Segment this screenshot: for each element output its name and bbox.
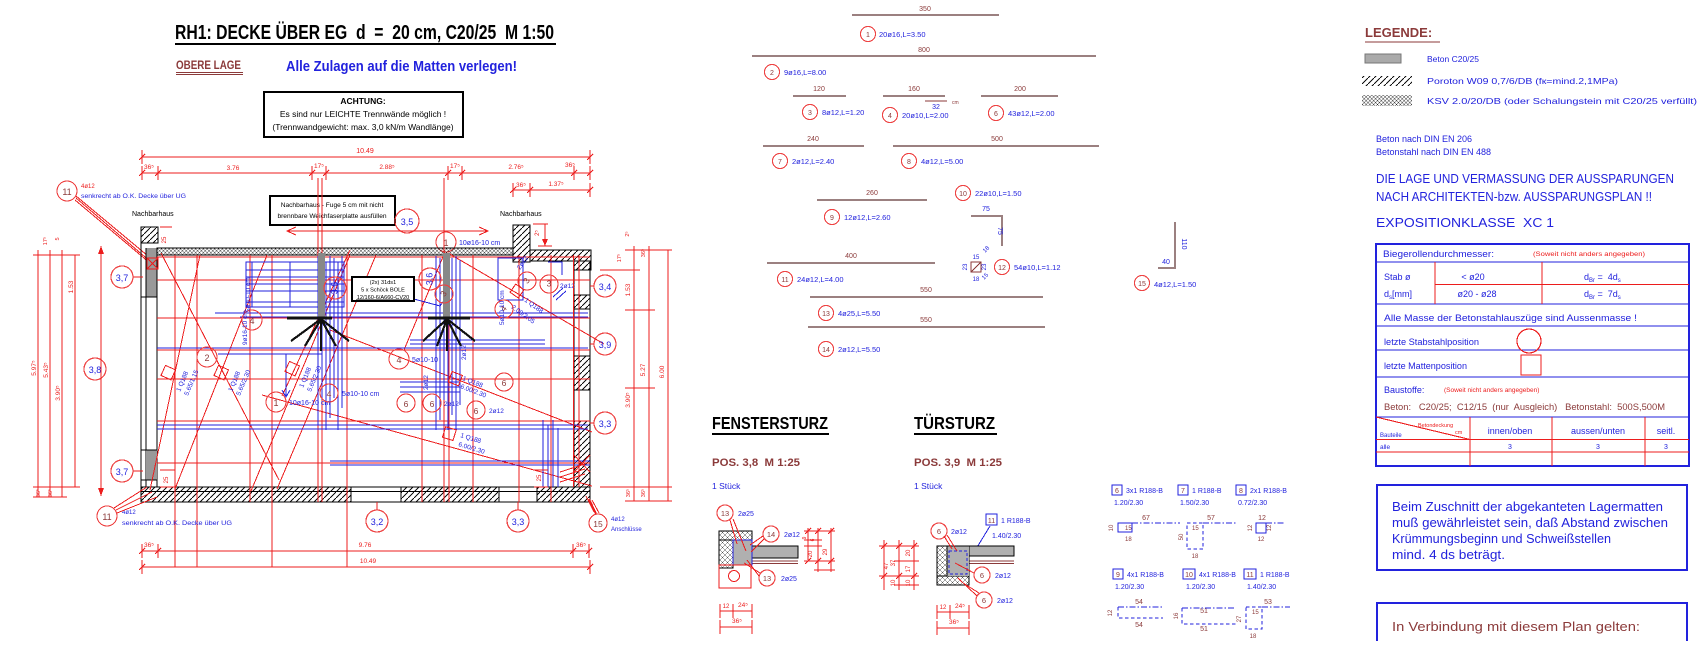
svg-text:mind. 4 ds beträgt.: mind. 4 ds beträgt.	[1392, 548, 1505, 562]
svg-text:Beton nach DIN EN 206: Beton nach DIN EN 206	[1376, 134, 1472, 144]
svg-text:2⁵: 2⁵	[624, 231, 631, 236]
svg-text:2: 2	[770, 70, 774, 77]
slab	[752, 546, 798, 558]
F2 mat label	[442, 427, 456, 441]
svg-text:1.37⁵: 1.37⁵	[548, 181, 564, 188]
svg-text:36⁵: 36⁵	[640, 249, 647, 257]
svg-text:9.76: 9.76	[359, 542, 372, 549]
svg-text:18: 18	[1250, 634, 1257, 640]
svg-text:Poroton W09 0,7/6/DB (fк=mind.: Poroton W09 0,7/6/DB (fк=mind.2,1MPa)	[1427, 76, 1618, 86]
svg-text:(2x) 31ds1: (2x) 31ds1	[370, 280, 396, 286]
svg-text:3.90⁵: 3.90⁵	[625, 392, 632, 408]
svg-text:3,6: 3,6	[424, 273, 434, 286]
svg-text:1.53: 1.53	[625, 283, 632, 296]
svg-text:2: 2	[204, 353, 209, 363]
svg-text:3,6: 3,6	[329, 282, 339, 295]
svg-text:54: 54	[1135, 599, 1143, 606]
svg-text:5 x Schöck BOLE: 5 x Schöck BOLE	[361, 288, 405, 294]
tuersturz sketch	[986, 514, 997, 525]
svg-text:2ø25: 2ø25	[781, 576, 797, 583]
item 2	[752, 55, 1096, 57]
left dims	[879, 540, 919, 590]
circle 2	[197, 347, 217, 367]
svg-text:1.40/2.30: 1.40/2.30	[1247, 584, 1276, 591]
svg-text:6: 6	[404, 399, 409, 409]
svg-text:51: 51	[1200, 626, 1208, 633]
svg-text:5.27: 5.27	[640, 363, 647, 376]
svg-text:(Soweit nicht anders angegeben: (Soweit nicht anders angegeben)	[1444, 387, 1539, 394]
svg-text:(Trennwandgewicht: max. 3,0 kN: (Trennwandgewicht: max. 3,0 kN/m Wandlän…	[272, 122, 453, 132]
svg-text:37: 37	[891, 559, 897, 566]
svg-text:3,3: 3,3	[599, 419, 612, 429]
svg-text:1 Stück: 1 Stück	[914, 481, 943, 491]
blue mat corner near circle 1	[218, 353, 322, 355]
blue cluster lower middle	[400, 340, 558, 487]
svg-text:RH1: DECKE ÜBER EG d = 20 c: RH1: DECKE ÜBER EG d = 20 cm, C20/25 M 1…	[175, 21, 554, 44]
svg-text:4ø12: 4ø12	[611, 517, 625, 523]
sub table	[1376, 417, 1689, 466]
svg-text:senkrecht ab O.K. Decke über U: senkrecht ab O.K. Decke über UG	[81, 193, 186, 200]
svg-text:2ø12,L=5.50: 2ø12,L=5.50	[838, 345, 880, 354]
item 4	[883, 95, 945, 97]
red X box at left wall top	[147, 258, 158, 269]
svg-text:1.20/2.30: 1.20/2.30	[1114, 500, 1143, 507]
red diagonals flat	[262, 250, 604, 486]
Schoeck box	[352, 277, 414, 301]
lintel	[733, 540, 752, 565]
svg-text:10: 10	[959, 191, 967, 198]
blue note box 2	[1377, 603, 1687, 646]
svg-text:4x1 R188-B: 4x1 R188-B	[1199, 572, 1236, 579]
circle 11 bottom	[97, 506, 117, 526]
Fuge box	[270, 196, 395, 225]
svg-text:36⁵: 36⁵	[144, 164, 154, 171]
svg-text:3x1 R188-B: 3x1 R188-B	[1126, 488, 1163, 495]
nachbar wall block top-right	[513, 225, 530, 262]
svg-text:4ø12: 4ø12	[122, 510, 136, 516]
svg-text:8ø12,L=1.20: 8ø12,L=1.20	[822, 108, 864, 117]
svg-text:6: 6	[994, 111, 998, 118]
svg-text:Baustoffe:: Baustoffe:	[1384, 385, 1424, 395]
svg-text:550: 550	[920, 317, 932, 324]
item 14	[808, 326, 1045, 328]
svg-text:10: 10	[906, 579, 912, 586]
svg-text:24⁵: 24⁵	[955, 603, 965, 610]
svg-text:11: 11	[102, 512, 111, 522]
svg-text:12: 12	[1258, 515, 1266, 522]
svg-text:54: 54	[1135, 622, 1143, 629]
right dims	[804, 528, 835, 572]
svg-text:3.76: 3.76	[227, 165, 240, 172]
svg-text:260: 260	[866, 190, 878, 197]
circle 6 group	[397, 394, 415, 412]
svg-text:(Soweit nicht anders angegeben: (Soweit nicht anders angegeben)	[1533, 251, 1645, 258]
svg-text:6: 6	[430, 399, 435, 409]
svg-text:2.88⁵: 2.88⁵	[379, 164, 395, 171]
svg-text:12: 12	[998, 265, 1006, 272]
svg-text:27: 27	[1237, 615, 1243, 622]
spider 1	[287, 317, 332, 320]
red square below w/ circle	[719, 565, 751, 588]
svg-text:3,8: 3,8	[89, 365, 102, 375]
circle 15	[589, 514, 607, 532]
svg-text:4x1 R188-B: 4x1 R188-B	[1127, 572, 1164, 579]
svg-text:1: 1	[866, 32, 870, 39]
svg-text:6: 6	[980, 571, 984, 580]
svg-text:240: 240	[807, 136, 819, 143]
svg-text:12ø12,L=2.60: 12ø12,L=2.60	[844, 213, 891, 222]
top right wall band poroton	[530, 250, 591, 261]
dim line 3 right	[513, 189, 590, 191]
svg-text:ACHTUNG:: ACHTUNG:	[340, 96, 385, 106]
svg-text:DIE LAGE UND VERMASSUNG DER AU: DIE LAGE UND VERMASSUNG DER AUSSPARUNGEN	[1376, 171, 1674, 186]
svg-text:10: 10	[891, 579, 897, 586]
svg-text:Krümmungsbeginn und Schweißste: Krümmungsbeginn und Schweißstellen	[1392, 532, 1611, 546]
svg-text:6: 6	[937, 527, 941, 536]
svg-text:43ø12,L=2.00: 43ø12,L=2.00	[1008, 109, 1055, 118]
svg-text:67: 67	[1142, 515, 1150, 522]
svg-text:550: 550	[920, 287, 932, 294]
svg-text:muß gewährleistet sein, daß Ab: muß gewährleistet sein, daß Abstand zwis…	[1392, 516, 1668, 530]
pos circles inside plan	[324, 277, 346, 299]
svg-text:7: 7	[1181, 488, 1185, 495]
svg-text:senkrecht ab O.K. Decke über U: senkrecht ab O.K. Decke über UG	[122, 520, 232, 527]
item 10	[956, 186, 971, 201]
svg-text:57: 57	[1207, 515, 1215, 522]
svg-text:2ø25: 2ø25	[738, 511, 754, 518]
svg-text:1.40/2.30: 1.40/2.30	[992, 533, 1021, 540]
svg-text:9: 9	[802, 536, 808, 539]
circle 4 mid right	[389, 349, 409, 369]
blue leader from box	[414, 295, 448, 306]
row2 headers	[1113, 569, 1123, 579]
blue long horizontals	[157, 313, 590, 465]
svg-text:120: 120	[813, 86, 825, 93]
svg-text:3: 3	[1664, 444, 1668, 451]
nachbar wall block top-left	[141, 227, 158, 243]
blue rebar cluster 2	[436, 256, 460, 430]
svg-text:400: 400	[845, 253, 857, 260]
svg-text:1.50/2.30: 1.50/2.30	[1180, 500, 1209, 507]
svg-text:Es sind nur LEICHTE Trennwände: Es sind nur LEICHTE Trennwände möglich !	[280, 109, 446, 119]
circle 1 top	[436, 232, 456, 252]
svg-text:Nachbarhaus: Nachbarhaus	[132, 211, 174, 218]
top crosshatch band (KSV)	[157, 248, 513, 255]
svg-text:36⁵: 36⁵	[144, 542, 154, 549]
svg-text:2ø12: 2ø12	[951, 529, 967, 536]
svg-text:14: 14	[767, 530, 775, 539]
item 7	[763, 145, 864, 147]
wall stub 2 grey	[443, 253, 450, 318]
right pos circles	[594, 275, 616, 297]
svg-text:10ø16-10 cm: 10ø16-10 cm	[459, 240, 500, 247]
circle 1 bottom	[266, 392, 286, 412]
svg-text:36⁵: 36⁵	[35, 489, 42, 497]
svg-text:18: 18	[1125, 537, 1132, 543]
svg-text:47: 47	[884, 562, 890, 569]
svg-text:4: 4	[888, 113, 892, 120]
svg-text:3.90⁵: 3.90⁵	[55, 385, 62, 401]
Biegerollen table	[1376, 244, 1689, 466]
item 8	[893, 145, 1099, 147]
bottom wall	[141, 487, 351, 502]
legend swatches	[1365, 54, 1401, 63]
circle 3,5 + arrow	[395, 209, 419, 233]
item 1	[852, 14, 999, 16]
svg-text:4: 4	[396, 355, 401, 365]
svg-text:OBERE LAGE: OBERE LAGE	[176, 60, 241, 72]
svg-text:2ø12: 2ø12	[444, 401, 459, 408]
svg-text:TÜRSTURZ: TÜRSTURZ	[914, 413, 995, 433]
svg-text:20ø10,L=2.00: 20ø10,L=2.00	[902, 111, 949, 120]
svg-text:24ø12,L=4.00: 24ø12,L=4.00	[797, 275, 844, 284]
svg-text:54ø10,L=1.12: 54ø10,L=1.12	[1014, 263, 1061, 272]
svg-text:11: 11	[988, 518, 995, 525]
svg-text:Betonstahl nach DIN EN 488: Betonstahl nach DIN EN 488	[1376, 147, 1491, 157]
left pos circles	[111, 266, 133, 288]
svg-text:14: 14	[822, 347, 830, 354]
svg-text:Beton: C20/25; C12/15 (nur: Beton: C20/25; C12/15 (nur Ausgleich) Be…	[1384, 402, 1665, 413]
svg-text:2ø12: 2ø12	[489, 408, 504, 415]
svg-text:cm: cm	[1455, 430, 1463, 436]
svg-text:Alle Zulagen auf die Matten ve: Alle Zulagen auf die Matten verlegen!	[286, 58, 517, 75]
svg-text:4ø12: 4ø12	[81, 184, 95, 190]
blue shapes near stub2	[498, 258, 523, 300]
svg-text:12: 12	[1248, 524, 1254, 531]
svg-text:1.20/2.30: 1.20/2.30	[1186, 584, 1215, 591]
svg-text:17⁵: 17⁵	[616, 254, 623, 262]
svg-text:16: 16	[1174, 612, 1180, 619]
svg-text:3,3: 3,3	[512, 517, 525, 527]
svg-text:9: 9	[1116, 572, 1120, 579]
item 15	[1158, 222, 1175, 268]
svg-text:cm: cm	[952, 100, 959, 106]
svg-text:aussen/unten: aussen/unten	[1571, 426, 1625, 436]
svg-text:5ø10-10 cm: 5ø10-10 cm	[342, 391, 380, 398]
red horizontals	[157, 257, 590, 463]
svg-text:FENSTERSTURZ: FENSTERSTURZ	[712, 413, 828, 433]
svg-text:Nachbarhaus: Nachbarhaus	[500, 211, 542, 218]
svg-text:4ø12,L=1.50: 4ø12,L=1.50	[1154, 280, 1196, 289]
svg-text:36⁵: 36⁵	[47, 489, 54, 497]
bottom dims	[720, 610, 752, 612]
svg-text:11: 11	[62, 187, 71, 197]
svg-text:800: 800	[918, 47, 930, 54]
svg-text:3,7: 3,7	[116, 273, 129, 283]
svg-text:3: 3	[1596, 444, 1600, 451]
svg-text:1.53: 1.53	[68, 280, 75, 293]
svg-text:2ø12: 2ø12	[784, 532, 800, 539]
item 9	[817, 199, 927, 201]
svg-text:3: 3	[1508, 444, 1512, 451]
blue rebar cluster 1	[318, 256, 342, 430]
left wall	[146, 248, 157, 297]
svg-text:15: 15	[1252, 610, 1259, 616]
svg-text:10.49: 10.49	[356, 148, 374, 155]
svg-text:11: 11	[781, 277, 788, 284]
svg-text:< ø20: < ø20	[1461, 272, 1484, 282]
svg-text:1 R188-B: 1 R188-B	[1260, 572, 1290, 579]
ACHTUNG box	[264, 92, 463, 137]
svg-text:22ø10,L=1.50: 22ø10,L=1.50	[975, 189, 1022, 198]
svg-text:6: 6	[982, 596, 986, 605]
svg-text:20ø16,L=3.50: 20ø16,L=3.50	[879, 30, 926, 39]
svg-text:36⁵: 36⁵	[576, 542, 586, 549]
svg-text:3: 3	[547, 278, 552, 288]
svg-text:15: 15	[593, 519, 603, 529]
svg-text:40: 40	[1162, 259, 1170, 266]
svg-text:3,7: 3,7	[116, 467, 129, 477]
svg-text:23: 23	[982, 263, 988, 270]
svg-text:seitl.: seitl.	[1657, 426, 1676, 436]
right dim chains	[600, 246, 672, 501]
svg-text:3,4: 3,4	[599, 282, 612, 292]
svg-text:NACH ARCHITEKTEN-bzw. AUSSPARU: NACH ARCHITEKTEN-bzw. AUSSPARUNGSPLAN !!	[1376, 189, 1652, 204]
item 11	[767, 262, 935, 264]
svg-text:letzte Mattenposition: letzte Mattenposition	[1384, 361, 1467, 371]
svg-text:6: 6	[502, 378, 507, 388]
svg-text:Beim Zuschnitt der abgekantete: Beim Zuschnitt der abgekanteten Lagermat…	[1392, 500, 1663, 514]
dim line 2	[142, 172, 590, 174]
svg-text:Stab ø: Stab ø	[1384, 272, 1411, 282]
fenstersturz sketch	[717, 505, 733, 521]
svg-text:5ø10-10 cm: 5ø10-10 cm	[499, 290, 506, 325]
right wall segments	[574, 295, 590, 309]
svg-text:EXPOSITIONKLASSE XC 1: EXPOSITIONKLASSE XC 1	[1376, 216, 1554, 230]
svg-text:13: 13	[721, 509, 729, 518]
svg-text:32: 32	[932, 104, 940, 111]
red diagonals steep	[150, 253, 376, 491]
svg-text:50: 50	[1179, 533, 1185, 540]
svg-text:12: 12	[940, 605, 947, 611]
svg-text:15: 15	[973, 255, 980, 261]
svg-text:4ø12,L=5.00: 4ø12,L=5.00	[921, 157, 963, 166]
svg-text:letzte Stabstahlposition: letzte Stabstahlposition	[1384, 337, 1479, 347]
svg-text:5.43⁵: 5.43⁵	[43, 362, 50, 378]
svg-text:1: 1	[273, 398, 278, 408]
svg-text:25: 25	[537, 474, 543, 481]
red verticals	[175, 178, 551, 567]
svg-text:53: 53	[1264, 599, 1272, 606]
svg-text:15: 15	[1138, 281, 1146, 288]
svg-text:1 R188-B: 1 R188-B	[1001, 518, 1031, 525]
svg-text:8: 8	[907, 159, 911, 166]
svg-text:12: 12	[1258, 537, 1265, 543]
svg-text:350: 350	[919, 6, 931, 13]
svg-text:POS. 3,8 M 1:25: POS. 3,8 M 1:25	[712, 457, 800, 469]
svg-text:500: 500	[991, 136, 1003, 143]
svg-text:8: 8	[1239, 488, 1243, 495]
item 3	[793, 95, 846, 97]
svg-text:Nachbarhaus - Fuge 5 cm mit ni: Nachbarhaus - Fuge 5 cm mit nicht	[281, 202, 384, 209]
svg-text:10: 10	[1185, 572, 1193, 579]
svg-text:3,5: 3,5	[401, 217, 414, 227]
svg-text:12: 12	[1267, 524, 1273, 531]
item 13	[810, 296, 1043, 298]
svg-text:20: 20	[808, 550, 814, 557]
svg-text:9ø16-10 cm: 9ø16-10 cm	[242, 310, 249, 345]
circle 4 small bottom	[320, 384, 338, 402]
svg-text:24⁵: 24⁵	[738, 602, 748, 609]
svg-text:Beton C20/25: Beton C20/25	[1427, 54, 1479, 64]
svg-text:36⁵: 36⁵	[732, 618, 742, 625]
svg-text:51: 51	[1200, 608, 1208, 615]
wall stub 1 grey	[318, 253, 325, 318]
svg-text:2ø12: 2ø12	[423, 375, 430, 390]
left dim chains	[33, 250, 80, 497]
svg-text:5.97⁵: 5.97⁵	[31, 360, 38, 376]
svg-text:KSV 2.0/20/DB (oder Schalungst: KSV 2.0/20/DB (oder Schalungstein mit C2…	[1427, 96, 1697, 106]
svg-text:3,9: 3,9	[599, 340, 612, 350]
svg-text:29: 29	[823, 548, 829, 555]
svg-text:17⁵: 17⁵	[314, 163, 324, 170]
svg-text:18: 18	[973, 277, 980, 283]
svg-text:200: 200	[1014, 86, 1026, 93]
svg-text:2ø12: 2ø12	[461, 345, 468, 360]
svg-text:36⁵: 36⁵	[949, 619, 959, 626]
svg-text:6: 6	[474, 406, 479, 416]
svg-text:75: 75	[982, 206, 990, 213]
svg-text:15: 15	[1125, 526, 1132, 532]
svg-text:10.49: 10.49	[360, 558, 377, 565]
svg-text:18: 18	[1192, 554, 1199, 560]
bottom dims	[142, 550, 590, 552]
svg-text:25: 25	[164, 476, 170, 483]
bottom dims	[937, 611, 969, 613]
svg-text:10: 10	[1109, 524, 1115, 531]
circle 11 top	[57, 181, 77, 201]
svg-text:1.20/2.30: 1.20/2.30	[1115, 584, 1144, 591]
svg-text:5: 5	[55, 237, 61, 240]
svg-text:LEGENDE:: LEGENDE:	[1365, 25, 1432, 40]
svg-text:4: 4	[327, 389, 332, 399]
spider 2	[428, 317, 470, 320]
svg-text:36⁵: 36⁵	[516, 182, 526, 189]
svg-text:innen/oben: innen/oben	[1488, 426, 1533, 436]
svg-text:ø20 - ø28: ø20 - ø28	[1457, 289, 1496, 299]
svg-text:2⁵: 2⁵	[534, 230, 541, 236]
svg-text:2ø12: 2ø12	[995, 573, 1011, 580]
row1 headers	[1112, 485, 1122, 495]
item 12	[971, 262, 981, 272]
svg-text:7: 7	[778, 159, 782, 166]
circle 4 left	[242, 310, 262, 330]
svg-text:2ø12,L=2.40: 2ø12,L=2.40	[792, 157, 834, 166]
svg-text:3,2: 3,2	[371, 517, 384, 527]
svg-text:17⁵: 17⁵	[450, 163, 460, 170]
item 6	[981, 95, 1058, 97]
svg-text:17: 17	[906, 565, 912, 572]
svg-text:13: 13	[763, 574, 771, 583]
svg-text:brennbare Weichfaserplatte aus: brennbare Weichfaserplatte ausfüllen	[277, 213, 386, 220]
svg-text:9: 9	[830, 215, 834, 222]
leaders	[730, 520, 737, 544]
svg-text:6: 6	[1115, 488, 1119, 495]
svg-text:Alle Masse der Betonstahlauszü: Alle Masse der Betonstahlauszüge sind Au…	[1384, 313, 1637, 323]
svg-text:5ø10-10 cm: 5ø10-10 cm	[245, 277, 252, 312]
svg-text:0.72/2.30: 0.72/2.30	[1238, 500, 1267, 507]
svg-text:15: 15	[1192, 526, 1199, 532]
svg-text:36⁵: 36⁵	[625, 489, 632, 497]
blue note box 1	[1377, 485, 1687, 570]
svg-text:4ø25,L=5.50: 4ø25,L=5.50	[838, 309, 880, 318]
svg-text:Bauteile: Bauteile	[1380, 433, 1402, 439]
svg-text:2x1 R188-B: 2x1 R188-B	[1250, 488, 1287, 495]
svg-text:6: 6	[810, 538, 816, 541]
svg-text:5ø10-10: 5ø10-10	[412, 357, 438, 364]
svg-text:Anschlüsse: Anschlüsse	[611, 527, 642, 533]
svg-text:6.00: 6.00	[659, 365, 666, 378]
